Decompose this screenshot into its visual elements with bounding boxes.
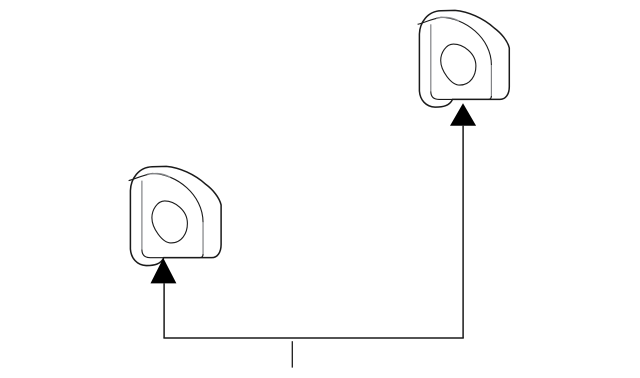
arrow shaft to part 2 (left vertical line) — [163, 283, 165, 338]
arrowhead to part 2 — [151, 258, 177, 283]
arrow shaft to part 1 (right vertical line) — [462, 126, 464, 338]
arrowhead to part 1 — [450, 103, 476, 126]
horizontal connector line — [163, 337, 463, 339]
center leader tick — [291, 341, 293, 367]
cushion part 1 (upper right) — [418, 10, 510, 107]
cushion part 2 (lower left) — [129, 166, 222, 265]
